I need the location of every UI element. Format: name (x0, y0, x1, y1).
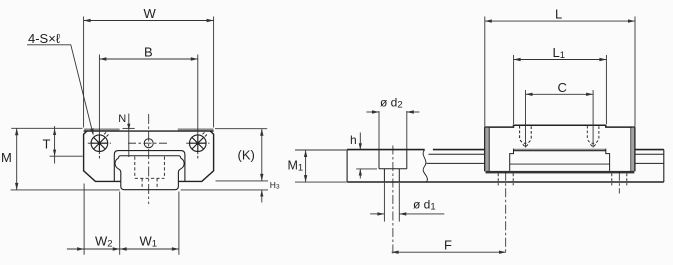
rail groove right (178, 158, 184, 172)
block right end seal (632, 128, 635, 171)
dimension W (84, 17, 214, 128)
svg-text:N: N (118, 113, 126, 125)
block mounting hole left (hidden) (520, 126, 532, 147)
center oil hole (144, 139, 153, 148)
svg-text:4-S×ℓ: 4-S×ℓ (28, 31, 61, 46)
rail right end (663, 150, 665, 182)
dimension h (356, 133, 377, 179)
rail hole 1 hidden (under block) (498, 174, 513, 186)
svg-text:F: F (444, 238, 452, 253)
rail left end (346, 150, 348, 182)
screw hole left thread depth hidden line (98, 152, 100, 161)
screw hole right S (190, 132, 207, 151)
rail hole 1 centerline (505, 172, 507, 254)
dimension od1 (370, 183, 444, 222)
svg-text:B: B (144, 45, 153, 60)
dimension T (50, 126, 83, 164)
dimension L (485, 17, 635, 127)
rail groove line upper (429, 153, 664, 155)
block lower seam line (510, 163, 610, 165)
dimension W2 W1 (67, 184, 179, 255)
rail top (under block) (119, 156, 181, 158)
rail counterbore hidden lines d2 (135, 157, 165, 179)
dimension H3 (181, 190, 268, 203)
block outline (84, 131, 214, 181)
rail side: top edge (347, 149, 664, 151)
rail groove left (115, 158, 121, 172)
block body step right (606, 149, 610, 171)
section hole centerline (392, 146, 394, 255)
svg-text:h: h (350, 133, 357, 147)
block body step left (510, 149, 514, 171)
svg-text:(K): (K) (238, 147, 255, 162)
svg-text:W: W (144, 6, 157, 21)
dimension L1 (514, 55, 607, 124)
dimension od2 (366, 111, 419, 150)
block mounting hole right (hidden) (587, 126, 599, 147)
rail cross-section (121, 172, 179, 190)
rail bottom edge (347, 181, 664, 183)
screw hole right thread depth hidden line (197, 152, 199, 161)
svg-text:M: M (1, 150, 12, 165)
center hole horizontal centerline (128, 142, 170, 144)
block body bottom gray band (514, 149, 606, 151)
block body bottom line (514, 150, 606, 152)
dimension C (526, 90, 594, 148)
counterbore section walls d2 (379, 150, 407, 169)
screw hole right centerlines (186, 142, 209, 144)
rail break squiggle (423, 150, 427, 182)
rail groove line lower (427, 162, 664, 164)
block top ground-surface band right (178, 128, 214, 130)
screw hole left S (91, 132, 108, 151)
block left end seal (485, 128, 488, 171)
screw hole left centerlines (88, 142, 111, 144)
block bottom thick edge (486, 171, 635, 174)
block top line (84, 130, 214, 132)
dimension F (392, 251, 506, 253)
block top ground-surface band left (84, 128, 120, 130)
dimension B (99, 55, 197, 135)
dimension M1 (295, 150, 347, 182)
rail through hole hidden lines d1 (142, 178, 157, 189)
block inner recess contour (114, 151, 185, 182)
block side view: top line with raised body (485, 125, 635, 127)
svg-text:T: T (43, 137, 51, 152)
rail hole 2 hidden (612, 174, 627, 186)
dimension N (128, 114, 130, 158)
rail hole 2 centerline (618, 172, 620, 194)
main vertical centerline (148, 114, 150, 204)
svg-text:C: C (558, 80, 567, 95)
dimension (K) (215, 129, 268, 181)
dimension M (11, 128, 120, 190)
svg-text:L: L (555, 7, 562, 22)
through hole section walls d1 (384, 169, 399, 182)
